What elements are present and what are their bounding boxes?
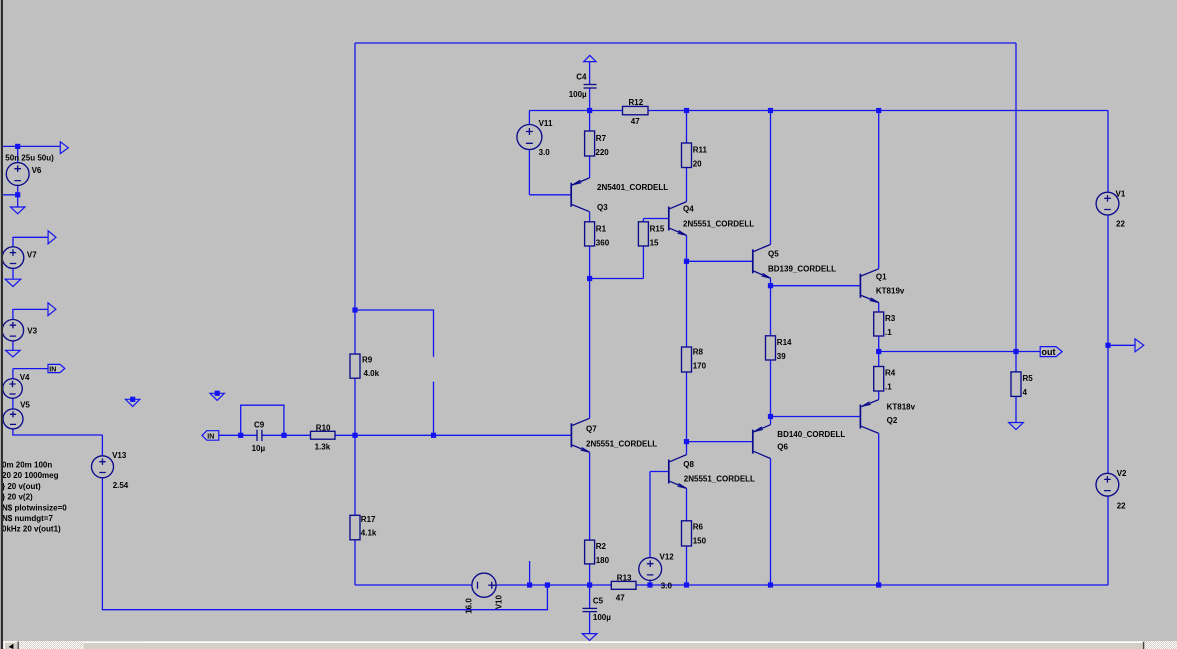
node C4 rail junction	[587, 108, 592, 113]
transistor Q2 PNP	[860, 400, 878, 434]
svg-text:22: 22	[1117, 502, 1126, 511]
label Q2	[887, 403, 916, 425]
wire V7 ground stub	[12, 269, 14, 280]
label R1	[596, 225, 610, 248]
resistor R1	[585, 222, 595, 246]
svg-text:R5: R5	[1023, 374, 1034, 383]
label C4	[569, 72, 587, 99]
svg-text:100µ: 100µ	[593, 613, 611, 622]
svg-text:BD140_CORDELL: BD140_CORDELL	[777, 430, 845, 439]
label R14	[777, 338, 792, 361]
node floating ground 1 junction	[130, 397, 135, 402]
svg-text:100µ: 100µ	[569, 90, 587, 99]
svg-text:.1: .1	[885, 328, 892, 337]
label R12	[629, 98, 644, 126]
svg-text:50n 25u 50u): 50n 25u 50u)	[5, 153, 54, 162]
label R15	[650, 225, 665, 248]
svg-text:V1: V1	[1116, 189, 1126, 198]
wire V5 bottom to V13 top	[13, 369, 103, 435]
voltage source V6	[6, 163, 29, 186]
node Q5 emitter junction	[768, 283, 773, 288]
node C9 left junction	[238, 433, 243, 438]
svg-text:39: 39	[777, 352, 786, 361]
resistor R4	[874, 367, 884, 392]
svg-text:Q4: Q4	[683, 205, 694, 214]
svg-text:180: 180	[596, 556, 610, 565]
capacitor C9	[257, 430, 262, 441]
transistor Q5 NPN	[753, 244, 771, 278]
transistor Q6 PNP	[753, 425, 771, 459]
ground below V3	[6, 350, 21, 357]
svg-text:R9: R9	[362, 356, 373, 365]
svg-text:R13: R13	[617, 573, 632, 582]
label Q5	[768, 249, 836, 273]
wire Q8 emitter down through R6 to bottom rail	[686, 488, 688, 585]
svg-text:R14: R14	[777, 338, 792, 347]
label R17	[361, 515, 377, 537]
svg-text:47: 47	[631, 117, 640, 126]
transistor Q3 PNP	[571, 178, 589, 212]
voltage source V12	[639, 558, 662, 581]
wire x=770.5 node down through R14 to Q2 base node	[770, 286, 772, 417]
label Q8	[683, 460, 755, 484]
ground below R5	[1009, 423, 1024, 430]
svg-text:C4: C4	[576, 72, 587, 81]
svg-text:220: 220	[595, 148, 609, 157]
label R3	[885, 314, 896, 337]
wire R15 column x=643.4 Q4 base row to node A row	[642, 219, 644, 279]
svg-text:} 20 v(2): } 20 v(2)	[2, 493, 33, 502]
node V12 junction	[647, 582, 652, 587]
svg-text:2.54: 2.54	[113, 481, 129, 490]
label R6	[693, 523, 707, 546]
wire node A horizontal R15 bottom to center column	[590, 278, 644, 280]
wire Q4 base row horizontal	[643, 218, 668, 220]
ground floating 1	[126, 399, 140, 406]
wire V13 return x=547.4 down and left	[102, 435, 547, 610]
port arrow V3	[48, 303, 56, 316]
svg-text:V7: V7	[27, 250, 37, 259]
svg-text:IN: IN	[49, 366, 56, 373]
ground floating 2	[210, 393, 224, 400]
window left sunken edge	[0, 0, 1, 649]
svg-text:} 20 v(out): } 20 v(out)	[2, 482, 41, 491]
node x433 input junction	[431, 433, 436, 438]
wire Q3 base horizontal	[529, 194, 571, 196]
svg-text:C5: C5	[593, 596, 604, 605]
label R5	[1023, 374, 1034, 397]
label R11	[693, 146, 708, 169]
label R2	[596, 542, 610, 565]
wire Q8 base to V12 column	[650, 471, 669, 473]
svg-text:R1: R1	[596, 225, 607, 234]
wire top rail y=43 from left rail to right corner	[355, 42, 1016, 44]
port arrow V6	[60, 142, 68, 154]
svg-text:Q3: Q3	[597, 203, 608, 212]
node A junction	[587, 276, 592, 281]
port flag out	[1040, 347, 1062, 358]
svg-text:R3: R3	[885, 314, 896, 323]
ground below V6	[11, 207, 25, 214]
wire V6 top row to port arrow	[0, 145, 60, 147]
wire Q7 emitter down through R2 to bottom rail	[589, 452, 591, 585]
label R4	[885, 369, 896, 392]
wire center column rail to Q3 emitter through R7	[589, 111, 591, 179]
svg-text:R4: R4	[885, 369, 896, 378]
svg-text:BD139_CORDELL: BD139_CORDELL	[768, 264, 836, 273]
spice directive text block	[2, 461, 67, 534]
svg-text:22: 22	[1116, 219, 1125, 228]
label V11	[539, 119, 553, 157]
voltage source V10 rotated	[472, 573, 496, 597]
label R7	[595, 134, 609, 157]
node R3-R4 out junction	[876, 349, 881, 354]
svg-text:Q2: Q2	[887, 416, 898, 425]
label R13	[616, 573, 632, 602]
wire Q1 base horizontal	[771, 285, 861, 287]
capacitor C5	[583, 608, 598, 611]
node C9 right junction	[281, 433, 286, 438]
node stub bottom junction	[527, 582, 532, 587]
wire Q2 collector down to bottom rail	[878, 433, 880, 585]
wire Q6 emitter stub	[770, 417, 772, 425]
label Q3	[597, 183, 668, 212]
node Q1 rail junction	[876, 108, 881, 113]
wire R5 branch x=1016 out node to ground	[1015, 352, 1017, 423]
svg-text:V6: V6	[32, 166, 42, 175]
svg-text:150: 150	[693, 537, 707, 546]
node left rail input junction	[352, 433, 357, 438]
svg-text:R11: R11	[693, 146, 708, 155]
label Q7	[586, 424, 657, 448]
wire right port row	[1108, 344, 1135, 346]
node R11 rail junction	[684, 108, 689, 113]
node R14 rail junction	[768, 108, 773, 113]
svg-text:1.3k: 1.3k	[315, 442, 331, 451]
svg-text:16.0: 16.0	[465, 598, 474, 614]
svg-text:360: 360	[596, 239, 610, 248]
svg-text:R17: R17	[361, 515, 376, 524]
port arrow right rail	[1135, 339, 1144, 352]
resistor R9	[350, 354, 360, 378]
svg-text:KT819v: KT819v	[876, 287, 905, 296]
svg-text:R15: R15	[650, 225, 665, 234]
svg-text:V12: V12	[660, 552, 675, 561]
wire C5 bottom plate to ground	[589, 612, 591, 634]
node R6 junction	[684, 582, 689, 587]
label R10	[315, 423, 331, 451]
wire C4 bottom plate to rail junction	[589, 88, 591, 110]
node V6 bottom junction	[15, 192, 20, 197]
transistor Q4 NPN	[669, 202, 687, 236]
svg-text:V2: V2	[1117, 469, 1127, 478]
wire right rail x=1108 through V1 and V2	[1107, 111, 1109, 586]
node right rail port junction	[1105, 343, 1110, 348]
resistor R6	[682, 521, 692, 546]
svg-text:15: 15	[650, 239, 659, 248]
svg-text:0m 20m 100n: 0m 20m 100n	[2, 461, 52, 470]
svg-text:V10: V10	[494, 595, 503, 610]
svg-text:.1: .1	[885, 383, 892, 392]
wire x=770.5 rail to Q5 collector	[770, 111, 772, 245]
label C9	[252, 421, 266, 454]
node Q8 collector junction	[684, 439, 689, 444]
label V10 rotated	[465, 595, 504, 614]
svg-text:V5: V5	[20, 401, 30, 410]
svg-text:out: out	[1042, 347, 1056, 357]
transistor Q7 NPN	[571, 418, 589, 452]
label R9	[362, 356, 380, 378]
svg-text:170: 170	[693, 362, 707, 371]
svg-text:2N5551_CORDELL: 2N5551_CORDELL	[683, 220, 754, 229]
wire V6 column to ground	[17, 146, 19, 207]
svg-text:R2: R2	[596, 542, 607, 551]
voltage source V11	[517, 125, 542, 150]
wire main positive rail y=110.5	[529, 110, 1108, 112]
wire C5 stub from bottom rail	[589, 585, 591, 608]
svg-text:4: 4	[1023, 388, 1028, 397]
svg-text:4.1k: 4.1k	[361, 528, 377, 537]
svg-text:4.0k: 4.0k	[364, 369, 380, 378]
svg-text:KT818v: KT818v	[887, 403, 916, 412]
node Q6 collector junction	[768, 582, 773, 587]
node Q6 emitter junction	[768, 414, 773, 419]
wire V3 ground stub	[12, 341, 14, 350]
resistor R7	[585, 131, 595, 156]
svg-text:20 20 1000meg: 20 20 1000meg	[2, 471, 59, 480]
svg-text:0kHz 20 v(out1): 0kHz 20 v(out1)	[2, 525, 61, 534]
scrollbar thumb	[82, 642, 143, 649]
voltage source V4	[3, 379, 23, 399]
node R2-C5 junction	[587, 582, 592, 587]
svg-text:R12: R12	[629, 98, 644, 107]
wire C9 bypass loop	[241, 405, 284, 435]
svg-text:47: 47	[616, 593, 625, 602]
resistor R15	[638, 222, 648, 246]
resistor R5	[1011, 372, 1021, 397]
wire right vertical x=1016 from top corner to out node	[1015, 43, 1017, 352]
label V6	[5, 153, 54, 175]
wire x=686.5 rail to Q4 collector through R11	[686, 111, 688, 202]
svg-text:Q5: Q5	[768, 249, 779, 258]
node Q2 collector junction	[876, 582, 881, 587]
voltage source V3	[2, 320, 23, 341]
resistor R17	[350, 515, 360, 540]
svg-text:R6: R6	[693, 523, 704, 532]
label C5	[593, 596, 611, 622]
resistor R11	[682, 143, 692, 168]
label V13	[112, 451, 129, 490]
voltage source V5	[3, 409, 23, 429]
voltage source V2	[1096, 473, 1119, 496]
node out flag junction	[1013, 349, 1018, 354]
svg-text:20: 20	[693, 160, 702, 169]
node V6 top junction	[15, 144, 20, 149]
svg-text:V13: V13	[112, 451, 127, 460]
svg-text:C9: C9	[254, 421, 265, 430]
wire Q3 collector to R1 and node down to Q7 collector	[589, 212, 591, 419]
svg-text:2N5401_CORDELL: 2N5401_CORDELL	[597, 183, 668, 192]
power flag above C4	[584, 55, 596, 61]
wire x=878.7 rail to Q1 collector	[878, 111, 880, 269]
wire Q4 emitter down through R8 to Q8 collector	[686, 235, 688, 454]
transistor Q1 NPN	[860, 269, 878, 303]
wire left rail x=355 from top corner down to bottom rail	[354, 43, 356, 585]
ground below V7	[5, 279, 21, 286]
svg-text:R10: R10	[316, 423, 331, 432]
label Q1	[876, 272, 905, 295]
svg-text:10µ: 10µ	[252, 444, 266, 453]
resistor R14	[766, 336, 776, 360]
svg-text:R7: R7	[596, 134, 607, 143]
svg-text:2N5551_CORDELL: 2N5551_CORDELL	[684, 475, 755, 484]
wire Q1 emitter through R3 node R4 to Q2 emitter	[878, 303, 880, 400]
svg-text:R8: R8	[693, 348, 704, 357]
ground below C5	[582, 634, 597, 641]
label V12	[660, 552, 675, 590]
label Q6	[777, 430, 845, 452]
wire V12 column x=650	[649, 472, 651, 586]
port flag IN input	[202, 431, 219, 441]
voltage source V7	[2, 247, 24, 269]
transistor Q8 NPN	[669, 455, 687, 489]
wire Q5 emitter stub to node	[770, 278, 772, 286]
wire x=433.5 lower dangling segment to input row	[433, 382, 435, 436]
wire Q5 base horizontal	[687, 260, 753, 262]
resistor R13	[611, 581, 636, 589]
wire V11 column x=529.4 rail to Q3 base elbow	[528, 111, 530, 195]
capacitor C4	[584, 85, 597, 89]
voltage source V1	[1096, 192, 1119, 215]
svg-text:Q7: Q7	[586, 424, 597, 433]
scrollbar left button	[4, 642, 19, 649]
wire input row from IN flag to C9 left plate	[219, 434, 257, 436]
wire V6 lower node to left edge	[0, 194, 18, 196]
wire x=433.5 upper segment from elbow	[355, 310, 434, 357]
svg-text:V4: V4	[20, 373, 30, 382]
wire input row C9 right plate to Q7 base	[262, 434, 571, 436]
node floating ground 2 junction	[215, 391, 220, 396]
port flag IN near V4	[48, 364, 65, 373]
label R8	[693, 348, 707, 371]
wire Q2 base horizontal	[771, 416, 861, 418]
svg-text:3.0: 3.0	[661, 581, 673, 590]
resistor R8	[682, 347, 692, 372]
wire stub above bottom rail	[529, 561, 531, 585]
wire bottom rail y=585	[355, 584, 1108, 586]
svg-text:Q8: Q8	[683, 460, 694, 469]
wire V3 to port arrow	[13, 309, 48, 319]
port arrow V7	[48, 231, 56, 244]
node left rail elbow junction	[352, 307, 357, 312]
svg-text:N$ numdgt=7: N$ numdgt=7	[2, 514, 53, 523]
voltage source V13	[92, 456, 114, 478]
label V2	[1117, 469, 1127, 511]
node Q4 emitter junction	[684, 259, 689, 264]
resistor R2	[585, 540, 595, 564]
svg-text:IN: IN	[207, 433, 214, 440]
wire Q6 base horizontal	[687, 441, 753, 443]
label Q4	[683, 205, 754, 229]
node V13 return junction	[545, 582, 550, 587]
svg-text:Q1: Q1	[876, 272, 887, 281]
svg-text:V3: V3	[27, 327, 37, 336]
label V1	[1116, 189, 1126, 228]
svg-text:2N5551_CORDELL: 2N5551_CORDELL	[586, 440, 657, 449]
wire power flag stub to C4 top plate	[589, 62, 591, 84]
wire out node row	[879, 351, 1040, 353]
wire Q6 collector down to bottom rail	[770, 459, 772, 586]
svg-text:3.0: 3.0	[539, 148, 551, 157]
svg-text:Q6: Q6	[777, 442, 788, 451]
svg-text:N$ plotwinsize=0: N$ plotwinsize=0	[2, 503, 67, 512]
resistor R12	[623, 106, 649, 114]
svg-text:V11: V11	[539, 119, 553, 128]
wire V7 to port arrow	[13, 237, 48, 247]
resistor R3	[874, 312, 884, 336]
resistor R10	[311, 431, 336, 439]
wire IN port row near V4	[13, 368, 48, 370]
